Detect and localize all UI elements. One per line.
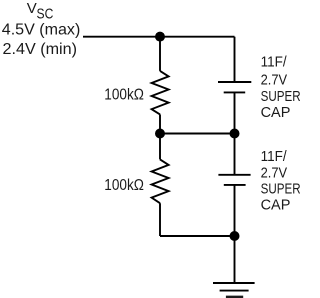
wire right branch lower (234, 185, 236, 283)
svg-text:4.5V (max): 4.5V (max) (2, 21, 81, 38)
resistor R2 100k lower (152, 159, 169, 203)
label C1 value 11F/2.7V SUPER CAP (261, 54, 301, 122)
node middle right (230, 129, 240, 139)
wire left branch mid-lower (159, 134, 161, 160)
wire middle rail (160, 133, 235, 135)
node bottom junction (230, 231, 240, 241)
svg-text:SUPER: SUPER (261, 88, 300, 105)
wire left branch bottom (159, 203, 161, 236)
wire right branch mid-lower (234, 134, 236, 175)
svg-text:V: V (27, 0, 37, 17)
capacitor C1 supercap upper (218, 82, 251, 92)
svg-text:CAP: CAP (261, 104, 291, 121)
svg-text:2.7V: 2.7V (261, 71, 288, 88)
wire top rail (83, 36, 235, 38)
ground (213, 283, 255, 297)
capacitor C2 supercap lower (218, 175, 250, 185)
svg-text:SC: SC (37, 5, 54, 22)
svg-text:SUPER: SUPER (261, 181, 300, 198)
svg-text:2.4V (min): 2.4V (min) (3, 41, 78, 58)
node middle left (155, 129, 165, 139)
wire bottom rail (160, 235, 235, 237)
wire right branch mid-upper (234, 92, 236, 133)
svg-text:100kΩ: 100kΩ (104, 177, 144, 194)
label VSC supply (27, 0, 54, 22)
svg-text:2.7V: 2.7V (261, 164, 288, 181)
svg-text:11F/: 11F/ (261, 148, 288, 165)
resistor R1 100k upper (152, 71, 169, 115)
wire right branch upper (234, 37, 236, 82)
svg-text:11F/: 11F/ (261, 54, 288, 71)
svg-text:CAP: CAP (261, 197, 291, 214)
label C2 value 11F/2.7V SUPER CAP (261, 148, 301, 214)
node top junction (155, 32, 165, 42)
wire left branch upper (159, 37, 161, 71)
svg-text:100kΩ: 100kΩ (104, 86, 144, 103)
wire left branch mid-upper (159, 114, 161, 133)
